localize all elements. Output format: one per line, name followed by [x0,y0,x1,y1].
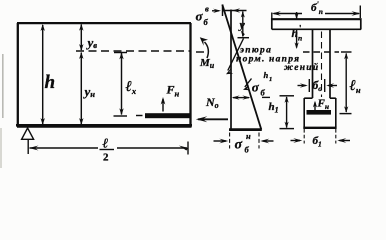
label sigma_b^h1 with leader [252,70,272,98]
section centroid dashed line [303,51,339,53]
svg-text:ℓн: ℓн [350,78,361,95]
dimension b'_p (flange width) [272,6,361,20]
stress diagram slant line [222,5,261,130]
label e_x [126,79,137,96]
svg-text:б: б [245,145,250,155]
beam side-view rectangle [17,23,192,127]
stress diagram zero axis [230,10,232,131]
svg-text:б: б [261,88,266,98]
label y_v [86,35,98,50]
dimension h_1 [280,96,295,129]
label b'_p [311,0,323,16]
svg-text:1: 1 [269,76,272,83]
label l/2 fraction [103,136,110,164]
label b_1 [313,135,322,149]
top fibre tick [222,5,224,17]
label y_n [83,84,96,99]
svg-text:жений: жений [284,62,319,73]
tendon level dash [136,115,143,117]
dimension b_0 (web width) [298,79,338,92]
svg-text:σ: σ [252,80,260,95]
svg-text:у: у [238,18,246,32]
dimension y_v arrow [79,24,83,51]
svg-text:б: б [204,17,209,27]
svg-text:h: h [264,70,269,80]
centroid dashed axis [76,50,191,52]
svg-text:ℓx: ℓx [126,79,137,96]
note text: epyura norm. napryazheniy [236,46,319,74]
dimension h arrow [41,24,45,125]
T cross-section: top flange [272,19,361,30]
dimension h'_p (flange depth) [295,12,299,49]
label N_0 [205,95,219,110]
dimension e_n (eccentricity) [340,53,352,114]
force F_n arrow (side view) [161,97,166,112]
label F_n (side view) [166,83,180,99]
svg-text:н: н [246,131,251,141]
stress value arrow at level h1 [232,95,270,99]
dimension sigma_b^n (bottom stress) [214,133,274,149]
tendon bar (section) [307,110,332,115]
dimension b_1 (bottom flange width) [291,129,351,144]
dimension e_x arrow [114,52,128,116]
svg-text:п: п [298,34,302,43]
label h'_p [292,24,303,43]
svg-text:h: h [292,28,298,40]
support (pin) triangle [22,128,34,139]
stress diagram bottom line [229,128,262,131]
leader arrow to axis [226,39,244,75]
tendon bar (side view) [145,113,191,118]
bottom flange block [304,98,336,127]
label M_i [199,57,215,70]
dimension y (top fibre distance) [238,11,250,38]
svg-text:σ: σ [196,9,204,24]
label sigma_b^n [235,131,252,155]
label sigma_b^v with arrow [196,4,210,28]
scan streak left margin [2,54,4,118]
span dimension l/2 [28,140,188,155]
svg-text:бо: бо [313,80,323,93]
svg-text:б1: б1 [313,135,322,149]
label h_1 [269,101,279,115]
moment M_i curved arrow [200,37,209,58]
label y [238,18,246,32]
force F_n arrow (section) [313,101,317,110]
svg-text:h: h [45,72,56,93]
svg-text:Fн: Fн [166,83,180,99]
svg-text:σ: σ [235,138,243,153]
svg-text:2: 2 [103,152,109,164]
label b_0 [313,80,323,93]
stress diagram top line [223,10,247,12]
svg-text:Nо: Nо [205,95,219,110]
web lines [312,30,314,98]
svg-text:ув: ув [86,35,98,50]
svg-text:h1: h1 [269,101,279,115]
svg-text:ун: ун [83,84,96,99]
force N_0 arrow [196,116,228,122]
node: centroid level mark right of beam [196,51,204,53]
svg-text:ℓ: ℓ [103,136,109,151]
section centre dashed line [321,32,323,98]
svg-text:Ми: Ми [199,57,215,70]
label F_n (section) [317,98,330,112]
svg-text:норм.: норм. [236,55,266,65]
svg-text:Fн: Fн [317,98,330,112]
svg-text:б'п: б'п [311,0,323,16]
svg-text:': ' [299,24,302,34]
dimension y_n arrow [79,52,83,125]
svg-text:в: в [205,4,209,14]
label e_n [350,78,361,95]
